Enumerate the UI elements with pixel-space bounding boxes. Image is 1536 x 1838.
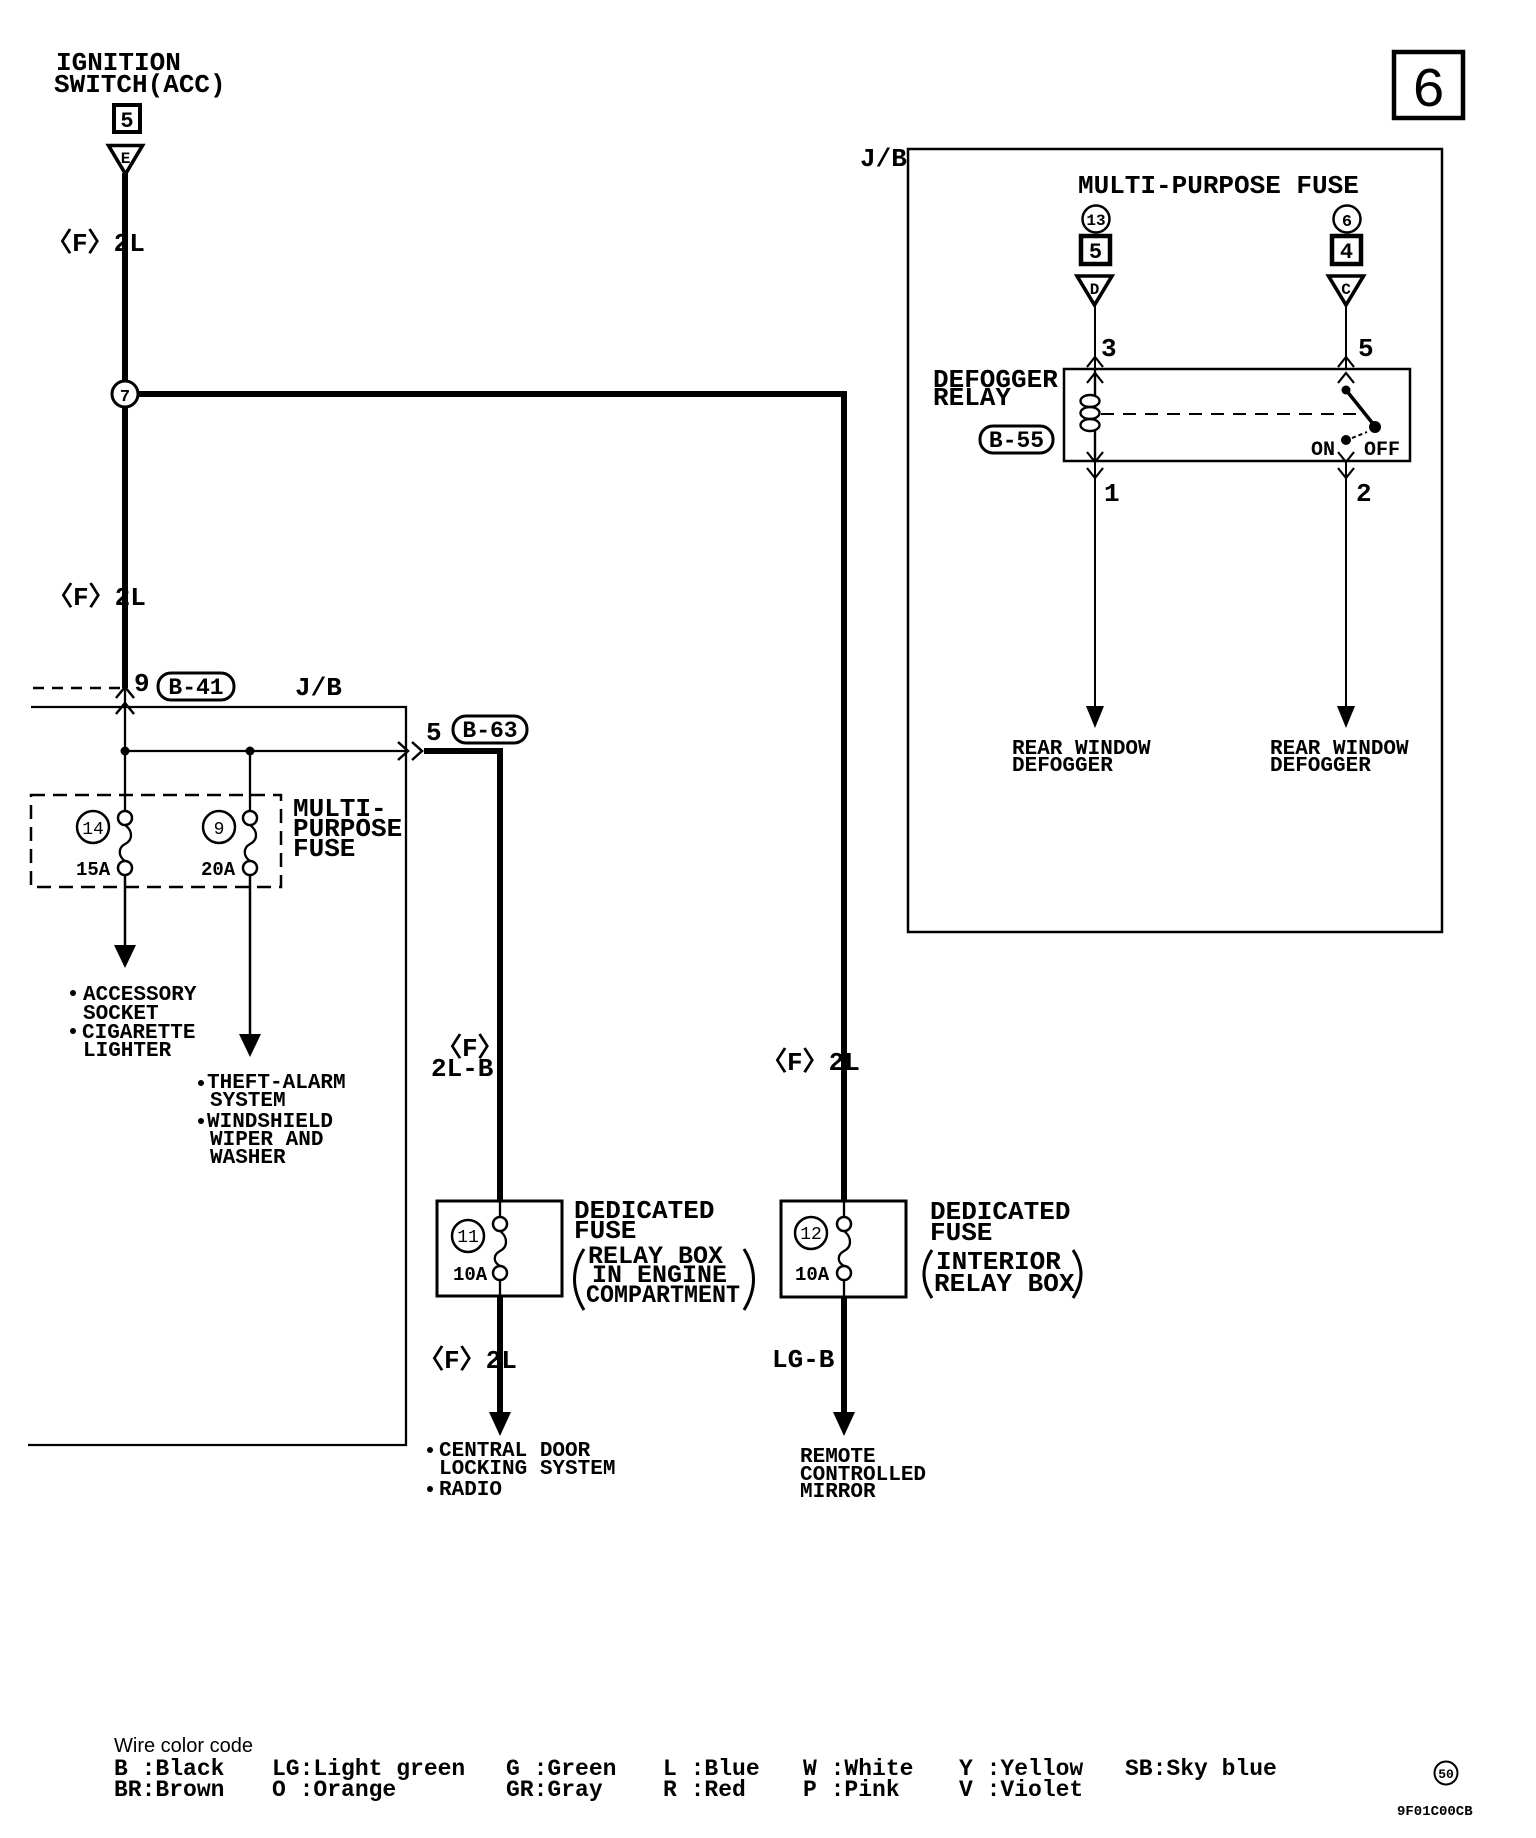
svg-text:V :Violet: V :Violet <box>959 1777 1083 1803</box>
label accessory socket / cigarette lighter <box>70 984 197 1063</box>
relay coil <box>1081 369 1100 461</box>
wire from fuse 14 to accessory socket arrow <box>114 875 136 968</box>
svg-text:FUSE: FUSE <box>293 834 355 864</box>
svg-text:R :Red: R :Red <box>663 1777 746 1803</box>
svg-text:C: C <box>1341 281 1351 299</box>
defogger relay box <box>1064 369 1410 461</box>
svg-text:B-41: B-41 <box>168 675 223 701</box>
fuse 14 element 15A <box>76 811 132 881</box>
connector B-55 <box>980 426 1053 454</box>
fuse 6 circle label <box>1334 206 1361 233</box>
wire label (F) 2L-B <box>431 1033 504 1084</box>
label IGNITION SWITCH(ACC) <box>54 48 226 100</box>
svg-text:〈F〉2L: 〈F〉2L <box>46 228 145 259</box>
wire thin inside J/B down to fuse 14 <box>124 688 126 812</box>
dedicated fuse 12 box <box>781 1201 906 1297</box>
label rear window defogger (left) <box>1012 738 1151 778</box>
svg-text:9: 9 <box>134 669 150 699</box>
wire thin bus to B-63 <box>125 750 406 752</box>
svg-text:OFF: OFF <box>1364 439 1400 462</box>
dedicated fuse 11 box <box>437 1201 562 1297</box>
junction block J/B outline (left) <box>28 707 406 1445</box>
svg-text:P :Pink: P :Pink <box>803 1777 900 1803</box>
wire thick from B-63 down to dedicated fuse 11 <box>424 751 500 1201</box>
svg-text:7: 7 <box>120 388 130 407</box>
wire crossing chevrons into J/B <box>116 687 134 714</box>
svg-text:GR:Gray: GR:Gray <box>506 1777 603 1803</box>
connector triangle C <box>1329 276 1364 305</box>
wire crossing chevrons out of J/B at B-63 <box>398 742 422 760</box>
fuse 14 circle label <box>77 811 109 843</box>
page number box 6 <box>1394 52 1463 123</box>
label theft-alarm / windshield wiper <box>198 1072 346 1170</box>
svg-text:SB:Sky blue: SB:Sky blue <box>1125 1756 1277 1782</box>
svg-text:9: 9 <box>214 820 225 840</box>
svg-text:〈F〉2L: 〈F〉2L <box>47 582 146 613</box>
svg-text:FUSE: FUSE <box>930 1218 992 1248</box>
junction block J/B outline (right panel) <box>908 149 1442 932</box>
connector triangle E <box>109 146 143 175</box>
wire thick from ignition switch down to J/B <box>122 173 128 688</box>
svg-text:RADIO: RADIO <box>439 1479 502 1502</box>
svg-text:50: 50 <box>1438 1767 1454 1782</box>
connector square 4 <box>1332 236 1361 265</box>
svg-text:6: 6 <box>1412 59 1446 123</box>
svg-text:6: 6 <box>1342 213 1352 232</box>
connector B-63 <box>453 716 527 744</box>
wire thin down to fuse 9 <box>249 751 251 812</box>
svg-text:10A: 10A <box>795 1264 830 1286</box>
sheet reference circled 50 <box>1435 1762 1458 1785</box>
svg-text:20A: 20A <box>201 859 236 881</box>
svg-text:〈F〉2L: 〈F〉2L <box>761 1047 860 1078</box>
svg-text:SWITCH(ACC): SWITCH(ACC) <box>54 70 226 100</box>
connector square 5 (ignition switch terminal) <box>114 105 140 134</box>
dashed boundary line at J/B entry <box>33 687 121 690</box>
svg-text:DEFOGGER: DEFOGGER <box>1270 755 1371 778</box>
svg-text:2L-B: 2L-B <box>431 1054 494 1084</box>
label DEFOGGER RELAY <box>933 365 1058 413</box>
svg-text:5: 5 <box>1089 240 1102 265</box>
svg-text:RELAY BOX: RELAY BOX <box>934 1269 1075 1299</box>
svg-text:D: D <box>1090 281 1100 299</box>
chevrons at relay pin 2 <box>1338 452 1354 478</box>
svg-text:14: 14 <box>82 820 104 840</box>
wire from triangle D to relay pin 3 <box>1094 305 1096 369</box>
svg-text:DEFOGGER: DEFOGGER <box>1012 755 1113 778</box>
svg-text:MULTI-PURPOSE FUSE: MULTI-PURPOSE FUSE <box>1078 171 1359 201</box>
svg-text:LG-B: LG-B <box>772 1345 835 1375</box>
svg-text:J/B: J/B <box>295 673 342 703</box>
label central door locking / radio <box>427 1440 615 1502</box>
fuse 9 element 20A <box>201 811 257 881</box>
svg-text:Wire color code: Wire color code <box>114 1735 253 1757</box>
label DEDICATED FUSE (interior relay box) <box>924 1197 1081 1299</box>
label rear window defogger (right) <box>1270 738 1409 778</box>
svg-text:ON: ON <box>1311 439 1335 462</box>
svg-text:12: 12 <box>800 1225 822 1245</box>
wire from fuse 11 to central door locking arrow <box>489 1297 511 1436</box>
junction dot at fuse 9 tap <box>246 747 255 756</box>
svg-text:RELAY: RELAY <box>933 383 1011 413</box>
multi-purpose fuse dashed block <box>31 795 281 887</box>
wire from relay pin 1 to rear window defogger <box>1086 461 1104 728</box>
svg-text:MIRROR: MIRROR <box>800 1481 876 1504</box>
svg-text:5: 5 <box>426 718 442 748</box>
svg-text:SYSTEM: SYSTEM <box>210 1090 286 1113</box>
svg-text:E: E <box>121 150 131 168</box>
wire color code legend <box>114 1735 1277 1803</box>
svg-text:LIGHTER: LIGHTER <box>83 1040 172 1063</box>
label DEDICATED FUSE (relay box in engine compartment) <box>574 1196 754 1310</box>
svg-text:LOCKING SYSTEM: LOCKING SYSTEM <box>439 1458 615 1481</box>
wire thick from node 7 right to dedicated fuse 12 column <box>125 394 844 1201</box>
chevrons at relay pin 1 <box>1087 452 1103 478</box>
svg-text:2: 2 <box>1356 479 1372 509</box>
svg-text:J/B: J/B <box>860 144 907 174</box>
relay actuation dashed link <box>1101 413 1360 415</box>
svg-text:3: 3 <box>1101 334 1117 364</box>
svg-text:1: 1 <box>1104 479 1120 509</box>
svg-text:13: 13 <box>1086 212 1105 230</box>
wire from relay pin 2 to rear window defogger <box>1337 461 1355 728</box>
svg-text:O :Orange: O :Orange <box>272 1777 396 1803</box>
svg-text:4: 4 <box>1340 240 1353 265</box>
svg-text:B-63: B-63 <box>462 718 517 744</box>
svg-text:11: 11 <box>457 1228 479 1248</box>
node 7 splice <box>112 381 138 407</box>
label remote controlled mirror <box>800 1446 926 1504</box>
svg-text:10A: 10A <box>453 1264 488 1286</box>
fuse 13 circle label <box>1083 206 1110 233</box>
svg-text:COMPARTMENT: COMPARTMENT <box>586 1281 740 1310</box>
svg-text:B-55: B-55 <box>989 428 1044 454</box>
connector triangle D <box>1077 276 1112 305</box>
chevrons at relay pin 5 <box>1338 357 1354 383</box>
connector B-41 <box>158 673 234 701</box>
svg-text:9F01C00CB: 9F01C00CB <box>1397 1804 1473 1820</box>
svg-text:5: 5 <box>120 109 133 134</box>
label MULTI-PURPOSE FUSE (left) <box>293 794 402 864</box>
wire from triangle C to relay pin 5 <box>1345 305 1347 369</box>
junction dot at fuse 14 tap <box>121 747 130 756</box>
svg-text:BR:Brown: BR:Brown <box>114 1777 224 1803</box>
svg-text:WASHER: WASHER <box>210 1147 286 1170</box>
svg-text:5: 5 <box>1358 334 1374 364</box>
connector square 5 (defogger relay feed) <box>1081 236 1110 265</box>
wire from fuse 12 to remote mirror arrow <box>833 1297 855 1436</box>
relay switch contacts ON/OFF <box>1311 386 1400 463</box>
fuse 9 circle label <box>203 811 235 843</box>
svg-text:15A: 15A <box>76 859 111 881</box>
chevrons at relay pin 3 <box>1087 357 1103 383</box>
wire from fuse 9 to theft-alarm arrow <box>239 875 261 1057</box>
